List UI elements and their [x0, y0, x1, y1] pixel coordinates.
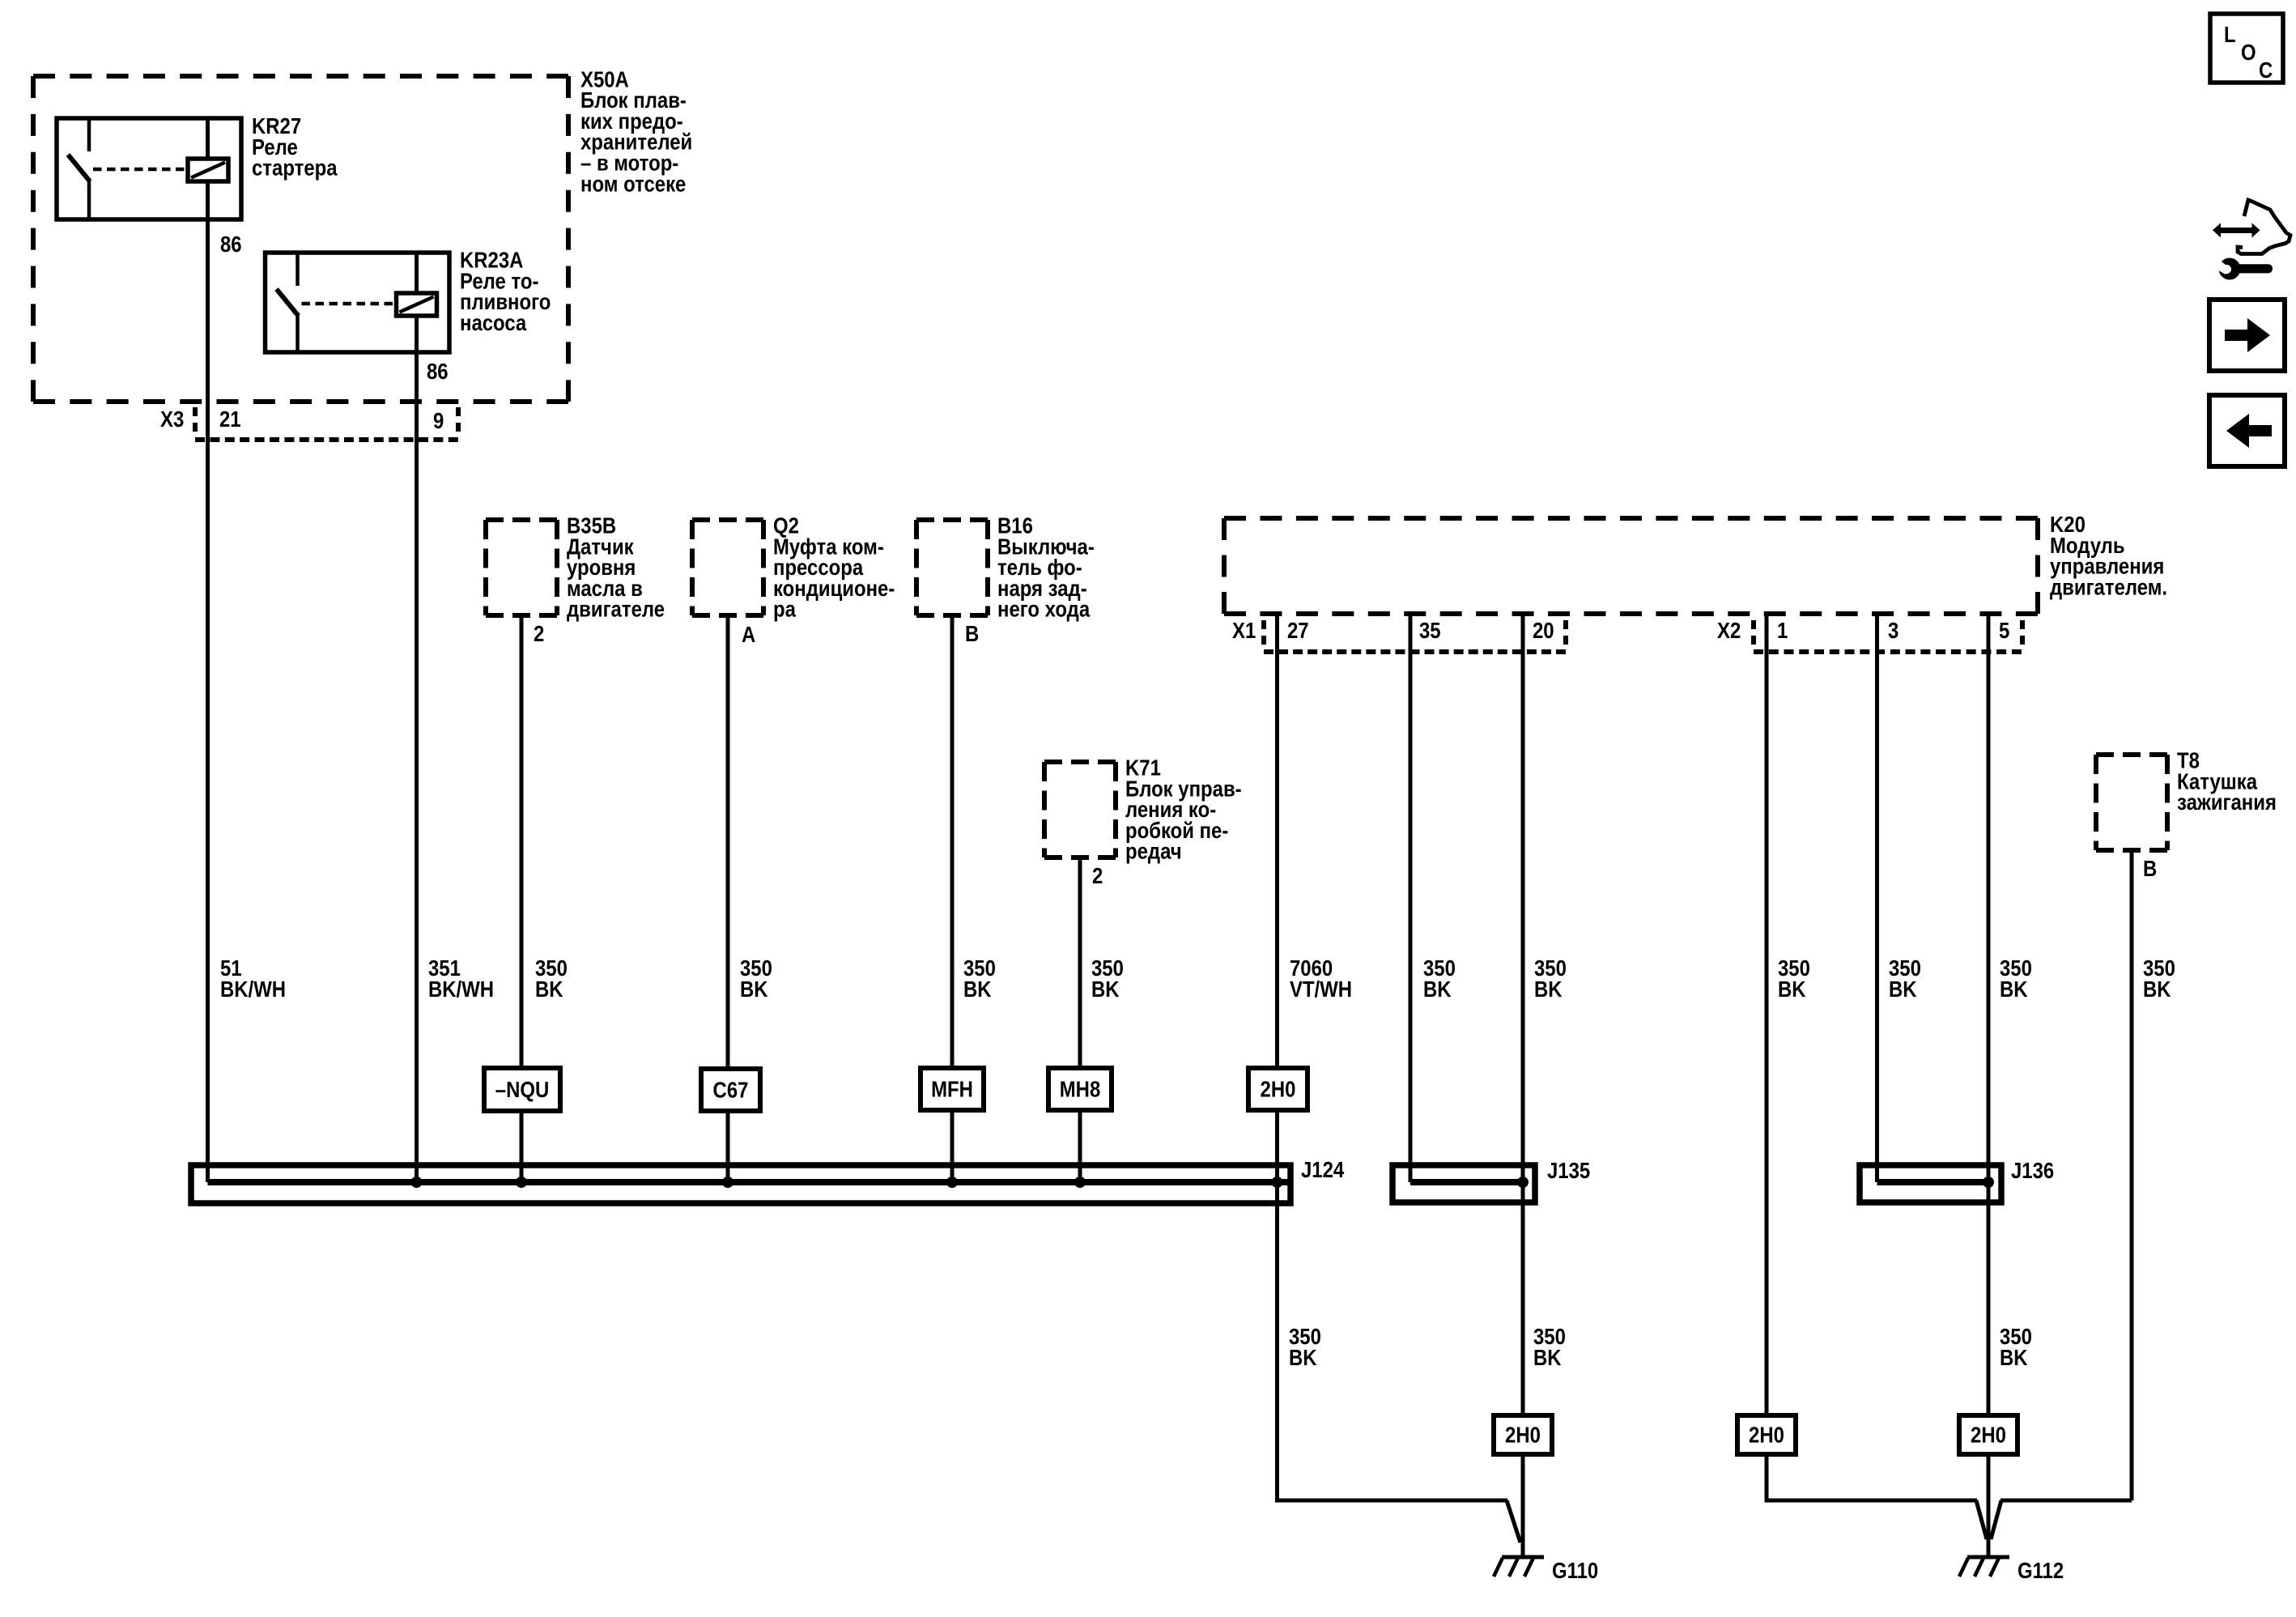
wire pin20 from 2H0 to ground G110: [1521, 1454, 1525, 1557]
svg-text:G112: G112: [2018, 1560, 2064, 1584]
svg-text:2H0: 2H0: [1505, 1423, 1541, 1448]
svg-text:BK/WH: BK/WH: [220, 977, 286, 1002]
svg-text:C67: C67: [713, 1079, 749, 1103]
connector X1 bottom dotted line: [1264, 649, 1566, 654]
connector tag 2H0 on pin27 wire: [1248, 1068, 1307, 1110]
svg-text:20: 20: [1533, 619, 1554, 644]
svg-text:86: 86: [427, 360, 449, 385]
splice J136 outline: [1860, 1165, 2001, 1202]
svg-text:21: 21: [219, 408, 241, 432]
wire 7060 VT/WH from K20 pin 27: [1275, 614, 1279, 1068]
svg-text:2H0: 2H0: [1971, 1423, 2006, 1448]
connector tag -NQU: [484, 1068, 560, 1111]
compressor clutch Q2 dashed box: [692, 517, 763, 522]
svg-text:него хода: него хода: [997, 598, 1091, 622]
relay KR27 switch blade: [68, 155, 90, 181]
svg-text:A: A: [742, 623, 755, 648]
wire 350 BK from K20 pin 3 to J136: [1875, 614, 1879, 1182]
connector X3 right dotted separator: [456, 407, 461, 438]
splice J124 outline: [191, 1165, 1290, 1203]
connector X2 left dotted separator: [1751, 620, 1756, 648]
svg-text:O: O: [2241, 41, 2256, 66]
splice J135 outline: [1392, 1165, 1535, 1202]
svg-text:BK: BK: [2000, 1346, 2028, 1370]
svg-text:BK: BK: [1534, 977, 1563, 1002]
ground G110: [1502, 1555, 1544, 1560]
LOC reference box: [2210, 14, 2283, 83]
connector tag MFH: [921, 1068, 984, 1110]
connector X1 left dotted separator: [1261, 620, 1266, 648]
connector X1 right dotted separator: [1563, 620, 1568, 648]
svg-text:BK: BK: [2143, 977, 2171, 1002]
svg-text:J135: J135: [1547, 1160, 1590, 1184]
ignition coil T8 dashed box: [2096, 752, 2167, 757]
svg-text:B: B: [965, 623, 979, 647]
svg-text:зажигания: зажигания: [2177, 791, 2277, 815]
forward arrow box: [2209, 300, 2285, 371]
svg-text:насоса: насоса: [460, 311, 527, 335]
svg-text:ном отсеке: ном отсеке: [580, 172, 686, 197]
ground G112: [1967, 1555, 2009, 1560]
relay KR23A switch top post: [296, 253, 300, 286]
svg-text:редач: редач: [1125, 840, 1182, 864]
svg-text:X1: X1: [1232, 619, 1256, 644]
vehicle diagnostic icon outline: [2238, 200, 2290, 254]
svg-text:BK: BK: [1423, 977, 1452, 1002]
svg-text:ра: ра: [773, 598, 797, 622]
wire 350 BK from K71 to J124: [1078, 857, 1082, 1182]
fuse block X50A dashed box: [33, 74, 568, 79]
transmission control module K71 dashed box: [1044, 760, 1116, 764]
svg-text:2H0: 2H0: [1261, 1078, 1296, 1102]
wire 350 BK from K20 pin 5 through J136: [1987, 614, 1991, 1415]
connector tag 2H0 on pin1 wire: [1737, 1415, 1796, 1454]
connector tag 2H0 on pin5 wire: [1959, 1415, 2018, 1454]
wire continuation pin27 below 2H0 to J124 and G110 branch: [1275, 1110, 1279, 1503]
junction dot J124 / B35B wire: [516, 1177, 527, 1188]
svg-text:двигателем.: двигателем.: [2050, 576, 2167, 600]
relay KR23A actuating link dashed: [302, 302, 397, 306]
double arrow of icon: [2213, 223, 2221, 237]
svg-text:BK: BK: [2000, 977, 2028, 1002]
relay KR27 box: [57, 118, 241, 219]
svg-text:BK: BK: [1889, 977, 1917, 1002]
svg-text:86: 86: [220, 233, 242, 257]
svg-text:BK/WH: BK/WH: [428, 977, 494, 1002]
relay KR27 coil: [188, 159, 228, 181]
relay KR27 coil top post: [206, 118, 210, 159]
splice J124 bus wire: [208, 1179, 1290, 1185]
svg-text:BK: BK: [1533, 1346, 1562, 1370]
svg-text:L: L: [2224, 23, 2236, 48]
svg-text:3: 3: [1888, 619, 1898, 644]
svg-text:MH8: MH8: [1060, 1078, 1101, 1102]
relay KR23A coil: [397, 293, 437, 316]
relay KR23A switch bottom post: [296, 314, 300, 352]
wire 351 BK/WH from KR23A pin 86 to J124: [415, 352, 419, 1182]
relay KR27 coil bottom post: [206, 181, 210, 221]
wire 350 BK from T8 to G112 branch: [2130, 850, 2134, 1500]
connector X3 left dotted separator: [193, 407, 198, 438]
svg-text:J124: J124: [1301, 1159, 1345, 1183]
branch wire pin1 to G112: [1767, 1499, 1977, 1503]
relay KR27 switch bottom post: [87, 180, 91, 219]
wire 51 BK/WH from KR27 pin 86 to J124: [206, 219, 210, 1182]
svg-text:2: 2: [534, 623, 544, 647]
svg-text:C: C: [2259, 59, 2273, 83]
svg-text:X3: X3: [160, 408, 184, 432]
svg-text:G110: G110: [1552, 1560, 1598, 1584]
svg-text:BK: BK: [1091, 977, 1120, 1002]
svg-text:BK: BK: [1778, 977, 1806, 1002]
splice J135 bus wire: [1410, 1179, 1523, 1185]
connector tag MH8: [1048, 1068, 1112, 1110]
junction dot on J136: [1983, 1177, 1994, 1188]
connector tag 2H0 on pin20 wire: [1494, 1415, 1552, 1454]
svg-text:B: B: [2143, 857, 2157, 882]
svg-text:VT/WH: VT/WH: [1290, 977, 1352, 1002]
relay KR23A coil top post: [415, 253, 419, 293]
svg-text:X2: X2: [1717, 619, 1741, 644]
junction dot J124 / pin27 wire: [1272, 1177, 1283, 1188]
wire 350 BK from Q2 to J124: [726, 615, 730, 1182]
relay KR23A box: [266, 253, 450, 352]
svg-text:27: 27: [1287, 619, 1309, 644]
svg-text:9: 9: [433, 410, 444, 434]
wrench of icon: [2219, 258, 2241, 280]
sensor B35B dashed box: [486, 517, 557, 522]
junction dot J124 / KR23A wire: [411, 1177, 423, 1188]
junction dot J124 / B16 wire: [946, 1177, 958, 1188]
splice J136 bus wire: [1877, 1179, 1989, 1185]
junction dot J124 / Q2 wire: [722, 1177, 733, 1188]
svg-text:стартера: стартера: [252, 156, 338, 181]
relay KR27 actuating link dashed: [93, 168, 188, 172]
connector X3 bottom dotted line: [195, 437, 458, 442]
svg-text:BK: BK: [963, 977, 992, 1002]
branch wire T8 to G112: [2000, 1499, 2132, 1503]
svg-text:2H0: 2H0: [1749, 1423, 1784, 1448]
wire 350 BK from K20 pin 1: [1765, 614, 1769, 1415]
relay KR27 switch top post: [87, 118, 91, 151]
wire 350 BK from B35B to J124: [520, 615, 524, 1182]
wire 350 BK from B16 to J124: [950, 615, 955, 1182]
connector X2 bottom dotted line: [1754, 649, 2022, 654]
wire 350 BK from K20 pin 20 through J135: [1521, 614, 1525, 1415]
connector X2 right dotted separator: [2020, 620, 2025, 648]
svg-text:5: 5: [1999, 619, 2009, 644]
connector tag C67: [701, 1069, 760, 1111]
backward arrow box: [2209, 395, 2285, 466]
svg-text:35: 35: [1419, 619, 1441, 644]
svg-text:J136: J136: [2011, 1160, 2054, 1184]
svg-text:BK: BK: [740, 977, 768, 1002]
svg-text:–NQU: –NQU: [495, 1079, 549, 1103]
relay KR23A coil bottom post: [415, 316, 419, 354]
relay KR23A switch blade: [277, 289, 299, 316]
svg-text:двигателе: двигателе: [567, 598, 665, 622]
wire 350 BK from K20 pin 35 to J135: [1409, 614, 1413, 1182]
wire pin1 below 2H0: [1765, 1454, 1769, 1503]
svg-text:BK: BK: [1289, 1346, 1317, 1370]
svg-text:2: 2: [1092, 865, 1103, 889]
svg-text:MFH: MFH: [931, 1078, 973, 1102]
junction dot J124 / K71 wire: [1074, 1177, 1086, 1188]
junction dot on J135: [1517, 1177, 1529, 1188]
wire pin5 from 2H0 to ground G112: [1987, 1454, 1991, 1557]
svg-text:BK: BK: [535, 977, 563, 1002]
svg-text:1: 1: [1777, 619, 1788, 644]
engine control module K20 dashed box: [1224, 516, 2038, 521]
branch wire pin27 to G110: [1278, 1499, 1508, 1503]
switch B16 dashed box: [916, 517, 988, 522]
